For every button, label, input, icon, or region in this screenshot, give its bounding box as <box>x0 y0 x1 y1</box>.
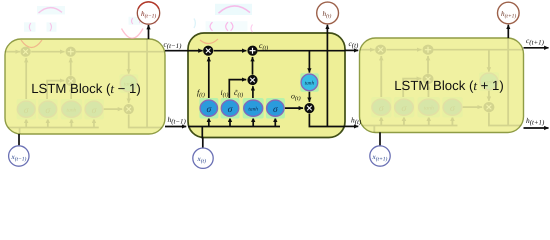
svg-text:σ: σ <box>206 105 211 115</box>
cand multiply node <box>247 75 257 85</box>
node x(t-1) <box>9 146 29 166</box>
wire: c line after add node to right edge <box>258 50 345 52</box>
wire: c(t+1) out <box>524 47 549 49</box>
gap labels <box>164 36 546 127</box>
tanh gate <box>244 100 263 116</box>
wire: h riser to top output <box>326 25 328 127</box>
middle block internals <box>188 25 345 139</box>
sigma gate o <box>267 100 284 116</box>
svg-text:σ: σ <box>273 105 278 115</box>
wire: output multiply down and right to h out <box>309 114 345 127</box>
output multiply node <box>304 103 314 113</box>
ghost internals in block t-1 <box>5 26 165 140</box>
wire: tanh gate up into cand-multiply <box>252 86 254 100</box>
node h(t+1) <box>498 2 520 24</box>
node x(t) <box>193 148 213 168</box>
connector arrows between blocks <box>19 25 549 149</box>
wire: multiply to add node <box>214 50 247 52</box>
wire: cand-multiply up into add node <box>252 57 254 75</box>
sigma gate f <box>200 100 217 116</box>
multiply node 1 <box>203 46 213 56</box>
wire: x(t-1) input line <box>18 134 20 145</box>
node h(t) <box>317 2 339 24</box>
glow boxes for gates <box>199 73 318 118</box>
node x(t+1) <box>370 146 390 166</box>
wire: c entry to multiply node <box>188 50 203 52</box>
svg-text:tanh: tanh <box>248 106 258 112</box>
wire: c from block t-1 to block t <box>165 50 188 52</box>
svg-text:LSTM Block (t − 1): LSTM Block (t − 1) <box>31 81 141 96</box>
watermark arcs (faint) <box>21 4 253 48</box>
LSTM block (t-1) body <box>5 39 165 134</box>
LSTM block (t+1) body <box>360 38 524 133</box>
svg-text:LSTM Block (t + 1): LSTM Block (t + 1) <box>394 78 504 93</box>
wire: x riser inside block <box>201 127 203 139</box>
wire: output gate to output multiply <box>284 107 303 109</box>
svg-text:σ: σ <box>228 105 233 115</box>
wire: output tanh to output multiply <box>308 91 310 102</box>
wire: h(t+1) out <box>524 127 549 129</box>
wire: x(t) input line <box>202 138 204 149</box>
wire: forget gate riser to multiply <box>208 57 210 100</box>
wire: x(t+1) input line <box>379 132 381 146</box>
output tanh circle <box>301 74 318 91</box>
inner labels of middle block <box>197 41 301 102</box>
wire: up arrow to h(t+1) circle <box>507 25 509 38</box>
wire: up arrow to h(t-1) circle <box>148 25 150 39</box>
sigma gate i <box>221 100 238 116</box>
wire: gate risers <box>208 118 210 127</box>
wire: input gate L to cand-multiply <box>229 80 246 100</box>
node h(t-1) <box>137 2 159 24</box>
wire: c branch down to output tanh <box>308 51 310 73</box>
LSTM block (t) body <box>188 33 345 138</box>
svg-text:tanh: tanh <box>305 81 315 87</box>
wire: h from block t to block t+1 <box>345 125 358 127</box>
add node <box>247 46 257 56</box>
wire: c from block t to block t+1 <box>345 49 358 51</box>
ghost internals in block t+1 <box>359 24 527 138</box>
wire: h from block t-1 to block t <box>165 126 186 128</box>
wire: h input distribution line <box>188 126 280 128</box>
